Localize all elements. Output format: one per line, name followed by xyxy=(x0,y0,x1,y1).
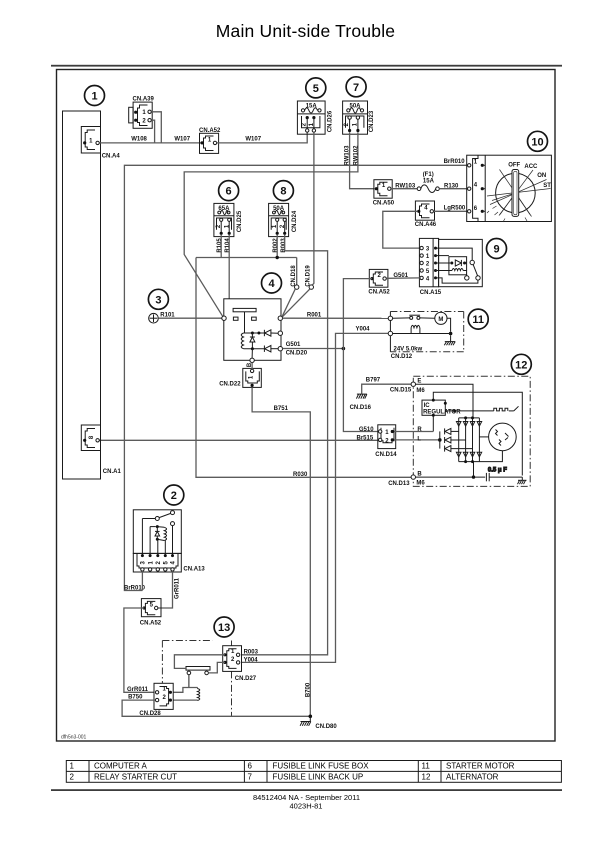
alternator enclosure xyxy=(413,376,530,486)
relay 13 contact circles xyxy=(187,671,191,675)
wire RW103 fuse7 to CN.A50 xyxy=(350,132,375,189)
starter ground xyxy=(444,335,455,345)
relay 9 internals xyxy=(436,248,481,283)
svg-text:CN.D24: CN.D24 xyxy=(292,210,298,232)
relay 13 contact bar xyxy=(186,667,210,671)
top rule xyxy=(51,65,562,67)
svg-text:CN.D26: CN.D26 xyxy=(327,110,333,132)
wire CN.D27 pin2 to contact xyxy=(208,662,225,673)
wire relay4 to CN.D22 xyxy=(251,363,253,370)
rectifier bridge xyxy=(456,416,481,463)
svg-text:W108: W108 xyxy=(131,137,147,143)
svg-text:STARTER MOTOR: STARTER MOTOR xyxy=(446,762,515,771)
svg-text:L: L xyxy=(417,436,421,442)
svg-text:GrR011: GrR011 xyxy=(127,687,149,693)
svg-text:CN.A39: CN.A39 xyxy=(133,96,155,102)
svg-text:M: M xyxy=(438,317,443,323)
relay 13 coil xyxy=(198,688,200,701)
svg-text:CN.A1: CN.A1 xyxy=(103,469,122,475)
svg-text:4: 4 xyxy=(268,278,275,290)
connector CN.A39 xyxy=(129,96,155,128)
svg-text:CN.D19: CN.D19 xyxy=(306,265,312,287)
svg-text:ALTERNATOR: ALTERNATOR xyxy=(446,773,499,782)
wire CN.A39 pin2 drop xyxy=(151,120,154,143)
IC regulator xyxy=(422,399,461,417)
connector CN.A50 xyxy=(373,180,395,207)
svg-text:6: 6 xyxy=(248,762,253,771)
svg-text:B797: B797 xyxy=(366,378,381,384)
connector CN.D14 xyxy=(375,425,397,458)
relay 4 output node G501 upper xyxy=(278,331,282,335)
switch pin 1 xyxy=(468,159,486,167)
svg-text:1: 1 xyxy=(91,91,97,103)
wire G501 from relay 4 xyxy=(283,348,344,350)
fuse 50A CN.D23 xyxy=(343,101,375,134)
wire R to CN.D14 xyxy=(394,431,433,433)
callout circle 6 xyxy=(219,181,239,201)
relay 4 contact stubs xyxy=(233,317,238,320)
svg-text:Main Unit-side Trouble: Main Unit-side Trouble xyxy=(216,21,395,41)
svg-text:CN.A4: CN.A4 xyxy=(102,154,121,160)
svg-text:R002: R002 xyxy=(273,238,279,253)
alternator B line xyxy=(416,462,486,479)
svg-text:12: 12 xyxy=(422,773,431,782)
relay 4 contact bar xyxy=(233,308,256,311)
connector CN.A52 (pin 5) xyxy=(140,599,162,627)
wire CN.A46 feed to CN.A15 pin3 xyxy=(383,211,420,248)
svg-text:R030: R030 xyxy=(293,472,308,478)
svg-text:CN.A52: CN.A52 xyxy=(368,290,390,296)
connector CN.A15 xyxy=(419,238,441,296)
svg-text:G501: G501 xyxy=(286,342,301,348)
fuse (F1) 15A xyxy=(391,172,439,192)
fuse 50A CN.D24 xyxy=(269,203,298,236)
capacitor 0.5uF xyxy=(486,468,522,482)
alternator pin B xyxy=(411,475,415,479)
starter motor enclosure xyxy=(390,312,463,352)
relay 4 coil bottom rail xyxy=(244,348,265,350)
relay 4 output diode 1 xyxy=(264,330,278,336)
svg-text:dfh5n3-001: dfh5n3-001 xyxy=(61,735,87,741)
callout circle 4 xyxy=(262,273,282,293)
relay 4 right contact xyxy=(278,316,282,320)
callout circle 13 xyxy=(214,617,234,637)
connector CN.A4 xyxy=(81,127,120,160)
rotor xyxy=(479,423,516,462)
wire fuse5 pin1 riser CN.D19 xyxy=(312,132,314,285)
svg-text:12: 12 xyxy=(515,359,527,371)
wire B750 to ground xyxy=(122,700,310,716)
svg-text:G510: G510 xyxy=(359,427,374,433)
connector CN.D28 xyxy=(139,683,173,717)
alternator pin E xyxy=(411,382,415,386)
svg-text:2: 2 xyxy=(70,773,75,782)
connector CN.A13 xyxy=(133,553,205,572)
connector CN.A1 xyxy=(81,425,121,475)
svg-text:CN.D16: CN.D16 xyxy=(350,405,372,411)
relay 4 left contact xyxy=(222,316,226,320)
wire G501 CN.A52 to CN.A15 xyxy=(386,277,420,279)
fuse output bus xyxy=(196,257,297,259)
wire W107 to fuse 5 xyxy=(217,132,308,143)
svg-text:15A: 15A xyxy=(423,178,435,184)
svg-text:BrR010: BrR010 xyxy=(444,159,466,165)
svg-text:FUSIBLE LINK BACK UP: FUSIBLE LINK BACK UP xyxy=(273,773,364,782)
svg-text:CN.D13: CN.D13 xyxy=(388,481,410,487)
svg-text:OFF: OFF xyxy=(508,162,520,168)
starter pin lower xyxy=(388,331,392,335)
R wire vertical xyxy=(432,415,434,431)
relay 2 contact xyxy=(142,511,174,556)
svg-text:RELAY STARTER CUT: RELAY STARTER CUT xyxy=(94,773,177,782)
svg-text:CN.D18: CN.D18 xyxy=(291,265,297,287)
fuse 65A CN.D25 xyxy=(214,203,243,236)
alternator internal E wire xyxy=(416,384,474,418)
svg-text:R104: R104 xyxy=(225,238,231,253)
relay 4 box xyxy=(224,299,281,361)
wire CN.D18 riser xyxy=(296,258,298,285)
switch pin 4 xyxy=(468,183,486,191)
relay 2 coil xyxy=(150,525,166,556)
wire CN.D28 pin1 to contact/coil xyxy=(172,688,198,693)
wire R101 xyxy=(158,317,222,319)
connector CN.A46 xyxy=(415,201,437,228)
relay 4 coil xyxy=(241,333,243,349)
callout circle 7 xyxy=(346,77,366,97)
wire CN.A39 pin1 drop xyxy=(151,112,161,143)
svg-text:W107: W107 xyxy=(174,137,190,143)
starter solenoid coil xyxy=(411,325,420,327)
wire RW102 fuse7 to relay 4 contact xyxy=(184,132,358,317)
switch pin 6 xyxy=(468,206,486,213)
fuse 15A CN.D26 xyxy=(297,101,333,134)
junction R002/bus xyxy=(276,256,279,259)
wire R003 fuse8 to CN.D27 xyxy=(240,235,328,655)
svg-text:R130: R130 xyxy=(444,183,459,189)
svg-text:7: 7 xyxy=(353,82,359,94)
starter pin upper xyxy=(388,316,392,320)
svg-text:G501: G501 xyxy=(393,273,408,279)
wire Y004 starter to relay 13 xyxy=(240,333,388,662)
callout circle 11 xyxy=(468,309,488,329)
svg-text:5: 5 xyxy=(313,83,319,95)
schematic frame xyxy=(57,70,556,742)
relay 2 box xyxy=(133,510,181,554)
svg-text:0.5 μ F: 0.5 μ F xyxy=(488,468,507,474)
svg-text:CN.D22: CN.D22 xyxy=(219,382,241,388)
svg-text:GrR011: GrR011 xyxy=(175,577,181,599)
wire R130 xyxy=(439,188,467,190)
svg-text:9: 9 xyxy=(493,244,499,256)
svg-text:CN.D25: CN.D25 xyxy=(237,210,243,232)
svg-text:CN.A50: CN.A50 xyxy=(373,200,395,206)
wire R002 xyxy=(276,235,278,258)
svg-text:10: 10 xyxy=(531,136,543,148)
callout circle 10 xyxy=(528,131,548,151)
ground CN.D80 xyxy=(300,716,311,726)
wire contact to coil node xyxy=(188,675,190,688)
callout circle 9 xyxy=(487,239,507,259)
svg-text:CN.D20: CN.D20 xyxy=(286,351,308,357)
starter wiring xyxy=(393,318,453,335)
wire W108/W107 main line xyxy=(99,142,200,144)
wire Br515 from CN.A1 xyxy=(99,439,378,441)
wire L to CN.D14 xyxy=(394,439,438,441)
bottom rule xyxy=(51,789,562,791)
callout circle 5 xyxy=(306,78,326,98)
junction B700/ground xyxy=(309,715,313,719)
svg-text:Br515: Br515 xyxy=(357,435,374,441)
svg-text:LgR500: LgR500 xyxy=(444,206,466,212)
svg-text:8: 8 xyxy=(280,186,286,198)
svg-text:R003: R003 xyxy=(244,649,259,655)
relay 4 bottom pin xyxy=(251,349,253,358)
callout circle 3 xyxy=(148,289,168,309)
callout circle 2 xyxy=(164,485,184,505)
svg-text:ST: ST xyxy=(543,183,551,189)
svg-text:IC: IC xyxy=(424,403,431,409)
starter contact xyxy=(393,315,435,319)
svg-text:ON: ON xyxy=(537,173,546,179)
stator phase diodes xyxy=(440,428,473,451)
key switch rotor xyxy=(487,162,551,222)
svg-text:B750: B750 xyxy=(128,695,143,701)
svg-text:CN.A15: CN.A15 xyxy=(420,290,442,296)
junction G501 xyxy=(342,347,346,351)
svg-text:(F1): (F1) xyxy=(423,172,434,178)
regulator field wire with resistor xyxy=(445,406,518,411)
wire CN.D27 pin1 to contact xyxy=(174,655,225,669)
wire LgR500 xyxy=(434,210,468,212)
alternator top rail xyxy=(433,392,522,475)
wire B797 xyxy=(362,384,411,394)
svg-text:4023H-81: 4023H-81 xyxy=(290,801,323,810)
svg-text:6: 6 xyxy=(226,186,232,198)
svg-text:CN.D27: CN.D27 xyxy=(235,676,257,682)
svg-text:CN.D15: CN.D15 xyxy=(390,387,412,393)
connector CN.A52 (G501) xyxy=(368,269,390,295)
svg-text:Y004: Y004 xyxy=(244,657,259,663)
svg-text:1: 1 xyxy=(70,762,75,771)
svg-text:B: B xyxy=(417,471,422,477)
wire R104 to relay 4 xyxy=(228,235,230,299)
svg-text:B700: B700 xyxy=(306,682,312,697)
svg-text:R001: R001 xyxy=(307,312,322,318)
svg-text:M6: M6 xyxy=(416,388,425,394)
computer A box xyxy=(63,111,101,479)
svg-text:Y004: Y004 xyxy=(356,327,371,333)
wire R001 xyxy=(283,317,389,319)
callout circle 1 xyxy=(85,86,105,106)
svg-text:11: 11 xyxy=(422,762,431,771)
svg-text:RW102: RW102 xyxy=(354,145,360,166)
svg-text:CN.A52: CN.A52 xyxy=(140,620,162,626)
svg-text:FUSIBLE LINK FUSE BOX: FUSIBLE LINK FUSE BOX xyxy=(273,762,370,771)
relay 4 output diode 2 xyxy=(264,346,278,352)
wire GrR011 relay2 pin4 xyxy=(158,571,173,608)
node CN.D19 xyxy=(309,285,313,289)
relay 9 box xyxy=(439,239,483,286)
svg-text:7: 7 xyxy=(248,773,253,782)
starter motor M xyxy=(435,312,447,324)
callout circle 8 xyxy=(273,181,293,201)
connector CN.A52 (top) xyxy=(199,128,221,154)
svg-text:24V 5.0kw: 24V 5.0kw xyxy=(394,346,423,352)
svg-text:CN.D23: CN.D23 xyxy=(369,110,375,132)
svg-text:E: E xyxy=(417,379,421,385)
wire R105 xyxy=(220,235,222,258)
wire relay2 pin3 to BrR010 xyxy=(141,571,143,590)
svg-text:R105: R105 xyxy=(217,238,223,253)
connector CN.D27 xyxy=(223,646,257,682)
svg-text:2: 2 xyxy=(171,490,177,502)
key switch box xyxy=(467,155,552,221)
alternator internal ground xyxy=(518,477,527,484)
svg-text:CN.D12: CN.D12 xyxy=(391,354,413,360)
svg-text:CN.A13: CN.A13 xyxy=(183,567,205,573)
svg-text:R: R xyxy=(417,427,422,433)
relay 4 output node G501 lower xyxy=(278,347,282,351)
svg-text:RW103: RW103 xyxy=(345,145,351,166)
svg-text:11: 11 xyxy=(472,314,484,326)
svg-text:B751: B751 xyxy=(274,406,289,412)
ground CN.D16 xyxy=(356,394,367,399)
wire BrR010 switch to relay 2 xyxy=(124,165,467,590)
svg-text:CN.D80: CN.D80 xyxy=(315,724,337,730)
wire CN.D18 diagonal to relay 4 xyxy=(282,289,295,317)
relay 4 armature stem xyxy=(244,312,246,333)
svg-text:COMPUTER A: COMPUTER A xyxy=(94,762,148,771)
callout circle 12 xyxy=(511,354,531,374)
svg-text:13: 13 xyxy=(218,622,230,634)
wire G501/G510 vertical xyxy=(343,279,378,432)
wire CN.D28 pin2 to coil xyxy=(172,699,198,701)
svg-text:CN.A46: CN.A46 xyxy=(415,222,437,228)
battery node R101 xyxy=(149,313,176,323)
wire bus down to R030 xyxy=(196,258,411,478)
relay 13 enclosure xyxy=(162,641,231,717)
wire GrR011 to CN.D28 xyxy=(124,608,155,692)
connector CN.D22 xyxy=(219,368,261,387)
legend table xyxy=(66,761,561,783)
svg-text:M6: M6 xyxy=(416,480,425,486)
svg-text:ACC: ACC xyxy=(524,164,538,170)
relay 4 coil top rail xyxy=(244,332,265,334)
svg-text:CN.D14: CN.D14 xyxy=(375,452,397,458)
relay 4 suppression diode xyxy=(250,333,255,349)
wire CN.D19 diagonal to relay 4 xyxy=(282,289,310,317)
svg-text:W107: W107 xyxy=(245,137,261,143)
wire B751 / B700 xyxy=(252,387,310,716)
node CN.D18 xyxy=(295,285,299,289)
stator node xyxy=(438,438,442,442)
svg-text:3: 3 xyxy=(155,294,161,306)
